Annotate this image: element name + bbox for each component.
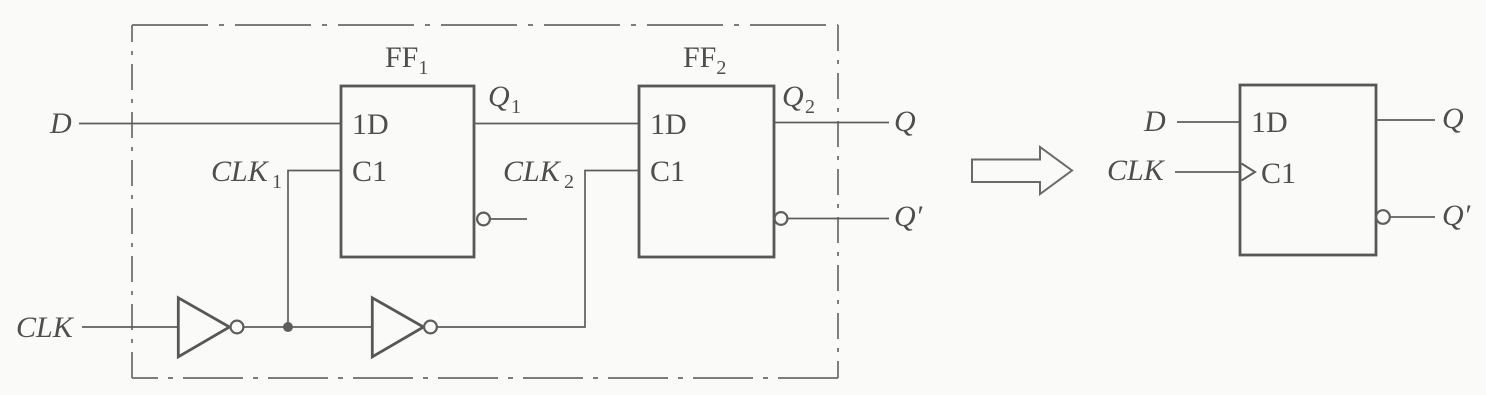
svg-text:Q′: Q′ [1442,199,1471,232]
wire CLK input [82,326,177,328]
svg-text:C1: C1 [352,155,387,188]
wire CLK input (right) [1175,171,1240,173]
svg-text:2: 2 [564,171,574,193]
svg-text:D: D [49,107,72,140]
svg-text:C1: C1 [650,155,685,188]
svg-text:Q: Q [488,80,510,113]
wire FF1 Q' stub [490,218,527,220]
junction node [283,322,293,332]
dynamic clock wedge of U1 [1242,164,1256,181]
dash-dot boundary box [132,25,838,378]
wire Q output (right) [1376,119,1435,121]
svg-text:Q: Q [894,105,916,138]
svg-text:1D: 1D [1251,106,1288,139]
wire Q1 (FF1 to FF2) [474,123,639,125]
bubble G1 [231,321,244,334]
implication arrow [972,147,1072,194]
inverted output bubble of U1 [1376,210,1390,224]
wire D input [79,123,341,125]
svg-text:Q: Q [782,80,804,113]
wire CLK1 (junction up to C1 of FF1) [288,171,341,328]
svg-text:C1: C1 [1261,157,1296,190]
svg-text:1D: 1D [650,108,687,141]
inverter G2 [372,298,423,357]
inverted output bubble of FF1 [477,213,490,226]
wire G1 output to junction [244,326,372,328]
svg-text:1D: 1D [352,108,389,141]
wire CLK2 (G2 output up to C1 of FF2) [437,171,639,328]
flip-flop U1 (combined) [1240,85,1376,255]
svg-text:CLK: CLK [1107,154,1166,187]
wire Q output [774,122,889,124]
svg-text:1: 1 [511,96,521,118]
svg-text:Q: Q [1442,102,1464,135]
bubble G2 [424,321,437,334]
inverted output bubble of FF2 [775,212,788,225]
svg-text:D: D [1143,105,1166,138]
svg-text:CLK: CLK [16,311,75,344]
flip-flop FF2 [639,86,774,257]
wire Q' output [788,218,890,220]
wire D input (right) [1177,121,1240,123]
inverter G1 [178,298,229,357]
svg-text:CLK: CLK [503,155,562,188]
svg-text:2: 2 [805,96,815,118]
svg-text:Q′: Q′ [894,200,923,233]
wire Q' output (right) [1390,216,1435,218]
flip-flop FF1 [341,86,474,257]
svg-text:1: 1 [272,171,282,193]
svg-text:CLK: CLK [211,155,270,188]
